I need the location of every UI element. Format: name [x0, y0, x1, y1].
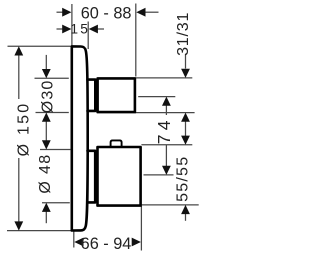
svg-text:66 - 94: 66 - 94: [81, 235, 132, 253]
svg-text:31/31: 31/31: [175, 12, 192, 56]
svg-text:Ø 48: Ø 48: [37, 153, 54, 193]
svg-text:Ø30: Ø30: [40, 80, 57, 114]
svg-text:60 - 88: 60 - 88: [81, 5, 132, 23]
svg-text:15: 15: [70, 21, 90, 36]
svg-text:55/55: 55/55: [175, 156, 192, 202]
svg-text:74: 74: [154, 116, 174, 144]
svg-text:Ø 150: Ø 150: [16, 102, 33, 157]
